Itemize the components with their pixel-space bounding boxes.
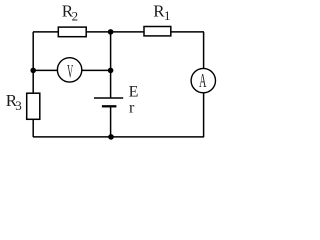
resistor R2 bbox=[58, 27, 86, 37]
wire top (node between R2 and R1) bbox=[33, 31, 204, 33]
wire voltmeter branch bbox=[33, 69, 111, 71]
battery E long plate bbox=[94, 97, 123, 99]
resistor R3 bbox=[27, 93, 40, 119]
svg-text:E: E bbox=[129, 84, 139, 101]
junction dot left bbox=[30, 68, 36, 74]
wire battery to bottom bbox=[110, 106, 112, 137]
wire middle vertical (battery branch) bbox=[110, 32, 112, 98]
junction dot middle bbox=[108, 68, 114, 74]
svg-text:r: r bbox=[129, 100, 135, 117]
voltmeter U-V bbox=[57, 58, 81, 82]
svg-text:2: 2 bbox=[72, 8, 79, 23]
wire left vertical bbox=[32, 32, 34, 137]
svg-text:V: V bbox=[67, 62, 73, 83]
resistor R1 bbox=[144, 27, 171, 36]
svg-text:3: 3 bbox=[15, 98, 22, 113]
svg-text:1: 1 bbox=[164, 8, 171, 23]
ammeter U-A bbox=[191, 68, 215, 92]
junction dot bottom bbox=[108, 134, 114, 140]
svg-text:A: A bbox=[199, 71, 207, 93]
wire right vertical bbox=[203, 32, 205, 137]
battery E short plate bbox=[102, 105, 117, 107]
junction dot top bbox=[108, 29, 114, 35]
wire bottom bbox=[33, 136, 204, 138]
